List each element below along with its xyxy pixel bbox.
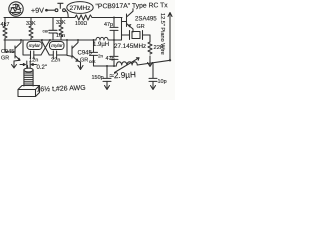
svg-text:47p: 47p xyxy=(106,56,115,62)
svg-text:12.5" Piano Wire: 12.5" Piano Wire xyxy=(159,13,165,55)
svg-text:+9V: +9V xyxy=(31,6,45,15)
svg-text:0.2": 0.2" xyxy=(37,65,47,71)
svg-text:C945: C945 xyxy=(1,49,14,55)
svg-text:GR: GR xyxy=(1,56,9,62)
svg-text:22n: 22n xyxy=(51,58,60,64)
svg-text:GR: GR xyxy=(137,24,145,30)
svg-text:≈2.9µH: ≈2.9µH xyxy=(109,70,136,80)
svg-text:100Ω: 100Ω xyxy=(75,21,87,27)
svg-text:1.9µH: 1.9µH xyxy=(93,42,109,48)
svg-text:27.145MHz: 27.145MHz xyxy=(114,43,146,50)
svg-text:"PCB917A" Type RC Tx: "PCB917A" Type RC Tx xyxy=(95,2,168,10)
svg-text:150p: 150p xyxy=(92,75,104,81)
svg-text:10p: 10p xyxy=(158,79,167,85)
svg-text:33K: 33K xyxy=(26,21,36,27)
svg-text:GR: GR xyxy=(80,58,88,64)
svg-text:mylar: mylar xyxy=(29,43,41,48)
svg-text:cer.: cer. xyxy=(89,59,96,64)
svg-text:12n: 12n xyxy=(29,58,38,64)
svg-text:2SA495: 2SA495 xyxy=(135,16,157,23)
svg-text:10n: 10n xyxy=(56,33,65,39)
svg-text:mylar: mylar xyxy=(51,43,63,48)
svg-text:47p: 47p xyxy=(104,22,113,28)
svg-text:2n: 2n xyxy=(98,54,104,59)
svg-text:4k7: 4k7 xyxy=(1,22,10,28)
svg-text:33K: 33K xyxy=(56,20,66,26)
svg-text:cer.: cer. xyxy=(43,29,50,34)
svg-text:27MHz: 27MHz xyxy=(70,5,91,12)
svg-text:C945: C945 xyxy=(78,51,93,57)
